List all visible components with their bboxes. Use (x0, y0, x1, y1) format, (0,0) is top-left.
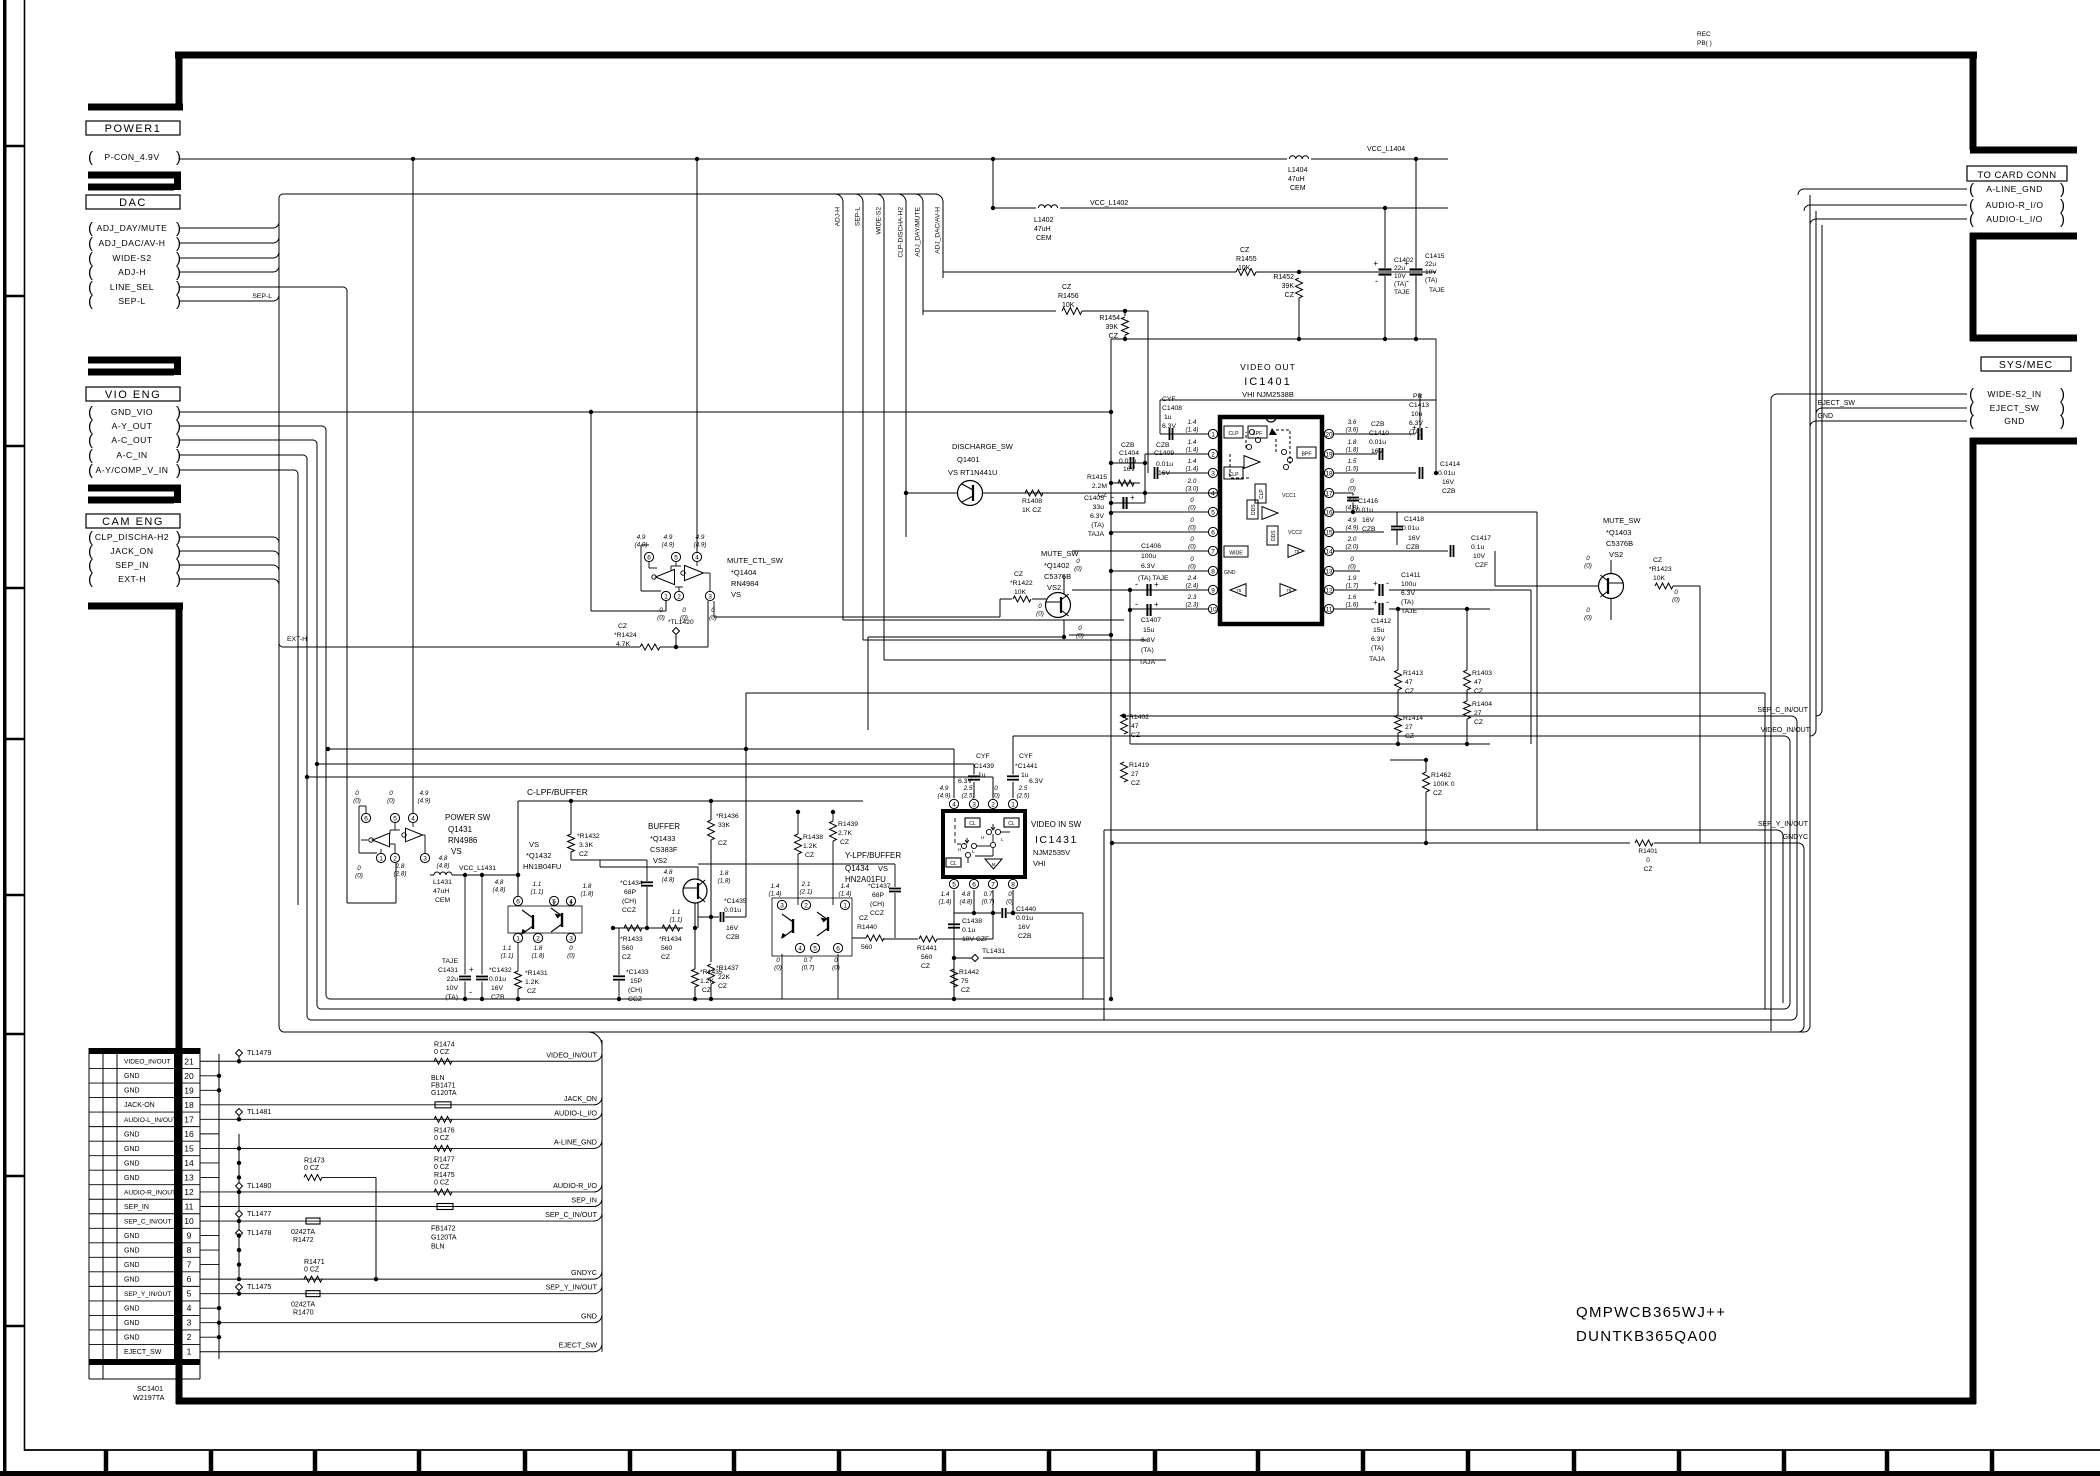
svg-text:+: + (1373, 579, 1378, 588)
svg-text:CCZ: CCZ (628, 996, 642, 1003)
svg-text:MUTE_SW: MUTE_SW (1603, 516, 1641, 525)
svg-text:14: 14 (184, 1158, 194, 1168)
svg-text:LINE_SEL: LINE_SEL (110, 282, 154, 292)
svg-text:1: 1 (843, 903, 847, 910)
svg-text:QMPWCB365WJ++: QMPWCB365WJ++ (1576, 1304, 1726, 1321)
svg-text:R1452: R1452 (1273, 274, 1294, 281)
svg-text:39K: 39K (1106, 324, 1119, 331)
svg-text:CZB: CZB (491, 994, 505, 1001)
svg-text:-: - (469, 987, 472, 997)
svg-text:0: 0 (1038, 603, 1042, 610)
svg-text:1.6: 1.6 (1348, 594, 1357, 601)
svg-text:13: 13 (1325, 569, 1333, 576)
svg-text:TO CARD CONN: TO CARD CONN (1977, 170, 2056, 181)
svg-text:0: 0 (994, 785, 998, 792)
svg-text:-: - (1135, 599, 1138, 609)
svg-text:16V: 16V (1158, 470, 1171, 477)
svg-text:2: 2 (187, 1332, 192, 1342)
svg-text:VS RT1N441U: VS RT1N441U (948, 468, 997, 477)
svg-text:(4.8): (4.8) (437, 863, 450, 870)
svg-text:*R1433: *R1433 (620, 936, 643, 943)
svg-text:-: - (1386, 578, 1389, 588)
svg-text:(1.8): (1.8) (1346, 447, 1359, 454)
svg-text:CZ: CZ (859, 915, 868, 922)
svg-text:+: + (469, 965, 474, 974)
svg-text:(TA): (TA) (1371, 645, 1384, 652)
svg-text:(2.1): (2.1) (800, 889, 813, 896)
svg-text:CZB: CZB (1442, 488, 1456, 495)
svg-text:(: ( (88, 571, 93, 588)
svg-text:7: 7 (187, 1260, 192, 1270)
svg-text:(0): (0) (1188, 525, 1196, 532)
svg-text:8: 8 (187, 1245, 192, 1255)
svg-text:DDS: DDS (1251, 504, 1257, 515)
svg-text:R1402: R1402 (1129, 714, 1149, 721)
svg-text:17: 17 (184, 1114, 194, 1124)
svg-text:EJECT_SW: EJECT_SW (559, 1341, 598, 1350)
svg-text:6: 6 (972, 882, 976, 889)
svg-text:11: 11 (185, 1202, 194, 1212)
svg-text:0: 0 (1078, 625, 1082, 632)
svg-text:(: ( (1969, 181, 1974, 198)
svg-text:A-Y/COMP_V_IN: A-Y/COMP_V_IN (96, 465, 169, 475)
svg-text:C1440: C1440 (1016, 906, 1036, 913)
svg-text:VCC_L1431: VCC_L1431 (459, 865, 496, 872)
svg-text:CEM: CEM (435, 897, 450, 904)
svg-text:*C1437: *C1437 (868, 883, 891, 890)
svg-text:R1456: R1456 (1058, 293, 1079, 300)
svg-text:4.8: 4.8 (664, 869, 673, 876)
svg-text:JACK_ON: JACK_ON (564, 1094, 597, 1103)
svg-text:10u: 10u (1411, 411, 1423, 418)
svg-text:6: 6 (647, 555, 651, 562)
svg-text:*C1433: *C1433 (626, 969, 649, 976)
svg-text:1: 1 (664, 594, 668, 601)
svg-text:21: 21 (184, 1056, 194, 1066)
svg-text:ADJ-H: ADJ-H (835, 207, 842, 227)
svg-text:CZ: CZ (718, 840, 727, 847)
svg-text:SEP-L: SEP-L (252, 293, 272, 300)
svg-text:(1.4): (1.4) (1186, 466, 1199, 473)
svg-text:(0): (0) (1076, 633, 1084, 640)
svg-text:R1476: R1476 (434, 1127, 455, 1134)
svg-text:2.0: 2.0 (1187, 478, 1197, 485)
svg-text:5: 5 (1211, 510, 1215, 517)
svg-text:-: - (1375, 276, 1378, 286)
svg-text:CZF: CZF (1475, 562, 1488, 569)
svg-text:6.3V: 6.3V (1141, 637, 1155, 644)
svg-text:AUDIO-R_INOUT: AUDIO-R_INOUT (124, 1189, 176, 1196)
svg-text:H: H (981, 835, 984, 840)
svg-text:TL1431: TL1431 (982, 948, 1005, 955)
svg-text:RN4986: RN4986 (448, 836, 478, 845)
svg-text:1: 1 (187, 1347, 192, 1357)
svg-text:GND: GND (124, 1306, 140, 1313)
svg-text:ADJ-H: ADJ-H (118, 267, 146, 277)
svg-text:VCC1: VCC1 (1282, 493, 1296, 499)
svg-text:VIDEO_IN/OUT: VIDEO_IN/OUT (1761, 727, 1811, 734)
svg-text:WIDE-S2: WIDE-S2 (876, 207, 883, 235)
svg-text:*R1436: *R1436 (716, 813, 739, 820)
svg-text:WIDE-S2: WIDE-S2 (112, 253, 151, 263)
svg-text:CZ: CZ (805, 852, 814, 859)
svg-text:3: 3 (780, 903, 784, 910)
svg-text:(4.9): (4.9) (662, 542, 675, 549)
svg-text:100K 0: 100K 0 (1433, 781, 1455, 788)
svg-text:*Q1404: *Q1404 (731, 568, 756, 577)
svg-text:A-LINE_GND: A-LINE_GND (1986, 184, 2043, 194)
svg-text:68P: 68P (624, 889, 637, 896)
svg-text:+: + (1373, 259, 1378, 268)
svg-text:VIDEO_IN/OUT: VIDEO_IN/OUT (124, 1059, 171, 1066)
svg-text:EJECT_SW: EJECT_SW (1990, 403, 2040, 413)
svg-text:R1439: R1439 (838, 821, 858, 828)
svg-text:39K: 39K (1282, 283, 1295, 290)
svg-text:VHI NJM2538B: VHI NJM2538B (1242, 390, 1294, 399)
svg-text:TAJA: TAJA (1139, 659, 1156, 666)
svg-text:(0): (0) (1584, 615, 1592, 622)
svg-text:CLP: CLP (1259, 489, 1265, 499)
svg-text:18: 18 (1325, 471, 1333, 478)
svg-text:ADJ_DAC/AV-H: ADJ_DAC/AV-H (99, 238, 166, 248)
svg-text:2: 2 (991, 802, 995, 809)
svg-text:(3.0): (3.0) (1186, 486, 1199, 493)
svg-text:VS: VS (731, 590, 741, 599)
svg-text:0242TA: 0242TA (291, 1229, 315, 1236)
svg-text:0: 0 (389, 790, 393, 797)
svg-text:GND: GND (124, 1233, 140, 1240)
svg-text:(0): (0) (774, 965, 782, 972)
svg-text:1.8: 1.8 (720, 870, 729, 877)
svg-text:(: ( (88, 462, 93, 479)
svg-text:15: 15 (1325, 530, 1333, 537)
svg-text:C1415: C1415 (1425, 253, 1445, 260)
svg-text:(0.7): (0.7) (802, 965, 815, 972)
svg-text:4.9: 4.9 (664, 534, 673, 541)
svg-text:+: + (1154, 600, 1159, 609)
svg-text:SEP-L: SEP-L (118, 296, 145, 306)
svg-text:POWER1: POWER1 (105, 123, 162, 135)
svg-text:VS2: VS2 (1047, 583, 1061, 592)
svg-text:TL1477: TL1477 (247, 1209, 271, 1218)
svg-text:2: 2 (1211, 452, 1215, 459)
svg-text:GND: GND (124, 1320, 140, 1327)
svg-text:+: + (1412, 423, 1417, 432)
svg-text:0 CZ: 0 CZ (434, 1164, 450, 1171)
svg-text:+: + (1130, 493, 1135, 502)
svg-text:6: 6 (364, 816, 368, 823)
svg-text:TAJE: TAJE (1394, 289, 1410, 296)
svg-text:2.0: 2.0 (1347, 536, 1357, 543)
svg-text:DAC: DAC (119, 197, 147, 209)
svg-text:VCC2: VCC2 (1288, 530, 1302, 536)
svg-text:0: 0 (1008, 891, 1012, 898)
svg-text:3: 3 (423, 856, 427, 863)
svg-text:NJM2535V: NJM2535V (1033, 848, 1070, 857)
svg-text:(: ( (88, 293, 93, 310)
svg-text:CZ: CZ (622, 954, 631, 961)
svg-text:1.1: 1.1 (533, 881, 542, 888)
svg-text:): ) (176, 149, 181, 166)
svg-text:2.3: 2.3 (1187, 594, 1197, 601)
svg-text:C1417: C1417 (1471, 535, 1491, 542)
svg-text:0: 0 (659, 607, 663, 614)
svg-text:6.3V: 6.3V (1029, 778, 1043, 785)
svg-text:15u: 15u (1373, 627, 1385, 634)
svg-text:VS2: VS2 (653, 856, 667, 865)
svg-text:GND: GND (124, 1247, 140, 1254)
svg-text:(2.5): (2.5) (962, 793, 975, 800)
svg-text:0.01u: 0.01u (1438, 470, 1455, 477)
svg-text:(3.6): (3.6) (1346, 427, 1359, 434)
svg-text:(4.8): (4.8) (493, 887, 506, 894)
svg-text:CZ: CZ (1433, 790, 1442, 797)
svg-text:4: 4 (798, 946, 802, 953)
svg-text:(4.8): (4.8) (662, 877, 675, 884)
svg-text:R1475: R1475 (434, 1172, 455, 1179)
svg-text:2.5: 2.5 (1018, 785, 1028, 792)
svg-text:16V: 16V (726, 925, 739, 932)
svg-text:(0): (0) (1348, 564, 1356, 571)
svg-text:-: - (1135, 579, 1138, 589)
svg-text:C1408: C1408 (1162, 405, 1182, 412)
svg-text:(: ( (1969, 211, 1974, 228)
svg-text:4.9: 4.9 (940, 785, 949, 792)
svg-text:1.1: 1.1 (672, 909, 681, 916)
svg-text:(TA): (TA) (1425, 277, 1437, 284)
svg-text:GND: GND (581, 1312, 597, 1321)
svg-text:SEP-L: SEP-L (855, 207, 862, 226)
svg-text:1.8: 1.8 (1348, 439, 1357, 446)
svg-text:*R1432: *R1432 (577, 833, 600, 840)
svg-text:1.4: 1.4 (771, 883, 780, 890)
svg-text:(4.9): (4.9) (694, 542, 707, 549)
svg-text:CZ: CZ (618, 623, 627, 630)
svg-text:VS: VS (529, 840, 539, 849)
svg-text:BLN: BLN (431, 1075, 445, 1082)
svg-text:C1439: C1439 (974, 763, 994, 770)
svg-text:0: 0 (355, 790, 359, 797)
svg-text:L1404: L1404 (1288, 167, 1308, 174)
svg-text:47: 47 (1405, 679, 1413, 686)
svg-text:-: - (1386, 597, 1389, 607)
svg-text:CZ: CZ (1131, 732, 1140, 739)
svg-text:(1.4): (1.4) (1186, 447, 1199, 454)
svg-text:27: 27 (1405, 724, 1413, 731)
svg-text:G120TA: G120TA (431, 1090, 457, 1097)
svg-text:0: 0 (1190, 556, 1194, 563)
svg-text:(0): (0) (1188, 564, 1196, 571)
svg-text:TL1475: TL1475 (247, 1282, 271, 1291)
svg-text:3: 3 (972, 802, 976, 809)
svg-text:CEM: CEM (1290, 185, 1306, 192)
svg-text:10V: 10V (446, 985, 459, 992)
svg-text:(CH): (CH) (622, 898, 636, 905)
svg-text:6: 6 (516, 899, 520, 906)
svg-text:SEP_C_IN/OUT: SEP_C_IN/OUT (124, 1218, 172, 1225)
svg-text:SEP_IN: SEP_IN (124, 1204, 149, 1211)
svg-text:(: ( (1969, 413, 1974, 430)
svg-text:C1412: C1412 (1371, 618, 1391, 625)
svg-text:*R1431: *R1431 (525, 970, 548, 977)
svg-text:VCC_L1402: VCC_L1402 (1090, 200, 1128, 207)
svg-text:6: 6 (187, 1274, 192, 1284)
svg-text:2.2M: 2.2M (1092, 483, 1107, 490)
svg-text:-: - (1425, 422, 1428, 432)
svg-text:27: 27 (1131, 771, 1139, 778)
svg-text:0 CZ: 0 CZ (434, 1135, 450, 1142)
svg-text:(2.3): (2.3) (1186, 602, 1199, 609)
svg-text:C5376B: C5376B (1606, 539, 1633, 548)
svg-text:(1.8): (1.8) (718, 878, 731, 885)
svg-text:(0): (0) (387, 798, 395, 805)
svg-text:3: 3 (569, 936, 573, 943)
svg-text:(2.0): (2.0) (1346, 544, 1359, 551)
svg-text:R1401: R1401 (1638, 848, 1658, 855)
svg-text:(1.8): (1.8) (532, 953, 545, 960)
svg-text:R1441: R1441 (917, 945, 937, 952)
svg-text:6.3V: 6.3V (1090, 513, 1104, 520)
svg-text:4: 4 (187, 1303, 192, 1313)
svg-text:R1442: R1442 (959, 969, 979, 976)
svg-text:R1470: R1470 (293, 1310, 314, 1317)
svg-text:22K: 22K (718, 974, 731, 981)
svg-text:BUFFER: BUFFER (648, 822, 680, 831)
svg-text:VIO ENG: VIO ENG (105, 389, 161, 401)
svg-text:75: 75 (961, 978, 969, 985)
svg-text:ADJ_DAY/MUTE: ADJ_DAY/MUTE (915, 206, 922, 256)
svg-text:0: 0 (357, 865, 361, 872)
svg-text:8: 8 (1211, 569, 1215, 576)
svg-text:22u: 22u (447, 976, 459, 983)
svg-text:0.01u: 0.01u (724, 907, 741, 914)
svg-text:TL1478: TL1478 (247, 1228, 271, 1237)
svg-text:20: 20 (184, 1071, 194, 1081)
svg-text:1.9: 1.9 (1348, 575, 1357, 582)
svg-text:(4.8): (4.8) (960, 899, 973, 906)
svg-text:CZ: CZ (1062, 284, 1072, 291)
svg-text:0.01u: 0.01u (1402, 525, 1419, 532)
svg-text:(2.8): (2.8) (394, 871, 407, 878)
svg-text:10K: 10K (1653, 575, 1666, 582)
svg-text:47uH: 47uH (1034, 226, 1051, 233)
svg-text:0.01u: 0.01u (1016, 915, 1033, 922)
svg-text:4: 4 (1211, 491, 1215, 498)
svg-text:VCC_L1404: VCC_L1404 (1367, 146, 1405, 153)
svg-text:AUDIO-R_I/O: AUDIO-R_I/O (553, 1181, 597, 1190)
svg-text:AUDIO-L_I/O: AUDIO-L_I/O (1986, 214, 2043, 224)
svg-text:0: 0 (1674, 589, 1678, 596)
svg-text:SEP_IN: SEP_IN (115, 560, 149, 570)
svg-text:CCZ: CCZ (622, 907, 636, 914)
svg-text:CYF: CYF (1162, 396, 1176, 403)
svg-text:16V: 16V (1018, 924, 1031, 931)
svg-text:3.6: 3.6 (1348, 419, 1357, 426)
svg-text:(4.9): (4.9) (938, 793, 951, 800)
svg-text:CLP-DISCHA-H2: CLP-DISCHA-H2 (898, 207, 905, 258)
svg-text:L1431: L1431 (433, 879, 452, 886)
svg-text:TAJA: TAJA (1088, 531, 1105, 538)
svg-text:15: 15 (184, 1143, 194, 1153)
svg-text:20: 20 (1325, 432, 1333, 439)
svg-text:R1419: R1419 (1129, 762, 1149, 769)
svg-text:R1454: R1454 (1099, 315, 1120, 322)
svg-text:A-Y_OUT: A-Y_OUT (112, 421, 153, 431)
svg-text:75: 75 (1286, 588, 1292, 594)
svg-text:BLN: BLN (431, 1244, 445, 1251)
svg-text:(1.4): (1.4) (939, 899, 952, 906)
svg-text:CLP: CLP (1228, 431, 1239, 437)
svg-text:(1.1): (1.1) (670, 917, 683, 924)
svg-text:C-LPF/BUFFER: C-LPF/BUFFER (527, 787, 588, 797)
svg-text:0.1u: 0.1u (1471, 544, 1484, 551)
svg-text:2: 2 (677, 594, 681, 601)
svg-text:GND: GND (124, 1335, 140, 1342)
svg-text:4.8: 4.8 (439, 855, 448, 862)
svg-text:2: 2 (393, 856, 397, 863)
svg-text:(0): (0) (709, 615, 717, 622)
svg-text:*Q1432: *Q1432 (526, 851, 551, 860)
svg-text:R1471: R1471 (304, 1259, 325, 1266)
svg-text:3: 3 (1211, 471, 1215, 478)
svg-text:HN1B04FU: HN1B04FU (523, 862, 561, 871)
svg-text:1.8: 1.8 (583, 883, 592, 890)
svg-text:0: 0 (776, 957, 780, 964)
svg-text:*R1434: *R1434 (659, 936, 682, 943)
svg-text:CZ: CZ (1240, 247, 1250, 254)
svg-text:CZB: CZB (1121, 442, 1135, 449)
svg-text:CZ: CZ (702, 987, 711, 994)
svg-text:GND: GND (124, 1160, 140, 1167)
svg-text:REC: REC (1697, 31, 1711, 38)
svg-text:SEP_C_IN/OUT: SEP_C_IN/OUT (545, 1210, 598, 1219)
svg-text:0.01u: 0.01u (1156, 461, 1173, 468)
svg-text:16V: 16V (491, 985, 504, 992)
svg-text:C1409: C1409 (1154, 450, 1174, 457)
svg-text:(: ( (88, 149, 93, 166)
svg-text:1.4: 1.4 (1188, 439, 1197, 446)
svg-text:GNDYC: GNDYC (1783, 834, 1808, 841)
svg-text:FB1471: FB1471 (431, 1082, 456, 1089)
svg-text:0 CZ: 0 CZ (434, 1179, 450, 1186)
svg-text:R1462: R1462 (1431, 772, 1451, 779)
svg-text:9: 9 (1211, 588, 1215, 595)
svg-text:CYF: CYF (1019, 753, 1033, 760)
svg-text:10K: 10K (1238, 265, 1251, 272)
svg-text:VHI: VHI (1033, 859, 1046, 868)
svg-text:0: 0 (1190, 536, 1194, 543)
svg-text:1: 1 (379, 856, 383, 863)
svg-text:*Q1403: *Q1403 (1606, 528, 1631, 537)
svg-text:(4.9): (4.9) (1346, 525, 1359, 532)
svg-text:(TA): (TA) (1394, 281, 1406, 288)
svg-text:0: 0 (1076, 558, 1080, 565)
svg-text:0: 0 (1350, 478, 1354, 485)
svg-text:CCZ: CCZ (870, 910, 884, 917)
svg-text:): ) (2060, 211, 2065, 228)
svg-text:4.8: 4.8 (962, 891, 971, 898)
svg-text:TL1480: TL1480 (247, 1181, 271, 1190)
svg-text:0242TA: 0242TA (291, 1302, 315, 1309)
svg-text:2.7K: 2.7K (838, 830, 852, 837)
svg-text:CL: CL (950, 861, 957, 867)
svg-text:WIDE-S2_IN: WIDE-S2_IN (1987, 389, 2041, 399)
svg-text:1u: 1u (1021, 772, 1029, 779)
svg-text:(0): (0) (355, 873, 363, 880)
svg-text:10V: 10V (1394, 273, 1406, 280)
svg-text:560: 560 (622, 945, 634, 952)
svg-text:10V: 10V (1473, 553, 1486, 560)
